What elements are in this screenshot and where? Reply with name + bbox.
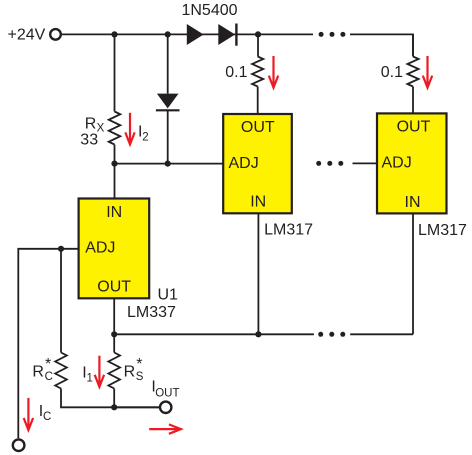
label RC* [32, 356, 53, 383]
svg-text:ADJ: ADJ [382, 155, 412, 172]
svg-text:ADJ: ADJ [85, 239, 115, 256]
resistor RC [55, 353, 67, 389]
junction node A (Rx tap) [111, 31, 117, 37]
wire 0.1 top (stage n) [412, 34, 414, 56]
wire mid rail to 2nd ADJ [353, 162, 378, 164]
wire ADJ left (U1) [18, 249, 78, 438]
wire 0.1 top (stage 1) [257, 34, 259, 56]
svg-text:R: R [124, 363, 136, 380]
svg-text:*: * [136, 356, 142, 373]
diode D3 [156, 94, 180, 111]
diode D1 [187, 24, 204, 45]
svg-text:33: 33 [80, 132, 98, 149]
svg-text:IN: IN [250, 193, 266, 210]
label I2 [138, 123, 149, 143]
junction node C (0.1 tap) [255, 31, 261, 37]
wire mid rail (ADJ bus) [115, 163, 224, 165]
terminal IC [13, 439, 25, 451]
junction mid rail at Rx [111, 161, 117, 167]
op-amp U3 regulator LM317 (stage n) [377, 113, 447, 213]
wire to IOUT terminal [114, 406, 160, 408]
current arrow 0.1 (stage n) [423, 56, 432, 88]
resistor 0.1 (stage 1) [252, 57, 263, 87]
op-amp U2 regulator LM317 (stage 1) [223, 114, 292, 213]
current arrow 0.1 (stage 1) [269, 56, 278, 88]
svg-text:C: C [43, 411, 51, 423]
wire RC bottom [61, 389, 161, 408]
svg-text:+24V: +24V [7, 26, 45, 43]
current arrow IOUT [149, 424, 181, 433]
ellipsis top rail [319, 32, 346, 37]
diode D2 [218, 24, 236, 46]
junction ADJ / RC [58, 246, 64, 252]
wire diode D3 top [167, 34, 169, 93]
junction OUT bus [111, 331, 117, 337]
svg-text:OUT: OUT [97, 278, 131, 295]
svg-text:1: 1 [87, 373, 93, 385]
current arrow I1 [95, 356, 104, 387]
resistor RX 33 [109, 112, 121, 145]
label RX [85, 116, 105, 135]
svg-text:R: R [85, 116, 97, 133]
terminal +24V [50, 29, 61, 40]
junction node B (diode tap) [165, 31, 171, 37]
svg-text:*: * [45, 356, 51, 373]
wire top rail right to 2nd stage [350, 34, 413, 56]
wire top rail [62, 33, 313, 35]
svg-text:0.1: 0.1 [225, 64, 247, 81]
wire OUT bus right [350, 333, 413, 335]
label I1 [82, 365, 93, 385]
svg-text:OUT: OUT [241, 119, 275, 136]
svg-text:C: C [45, 371, 53, 383]
wire Rx bottom [114, 145, 116, 199]
wire diode D3 bottom [167, 110, 169, 163]
junction output node [111, 404, 117, 410]
wire IN down (stage 1) [257, 213, 259, 334]
svg-text:IN: IN [405, 194, 421, 211]
op-amp U1 regulator LM337 [79, 199, 150, 299]
svg-text:IN: IN [106, 204, 122, 221]
wire U1 OUT down [113, 298, 115, 352]
label IOUT [151, 379, 179, 400]
label IC [39, 403, 52, 423]
svg-text:2: 2 [142, 132, 148, 144]
svg-text:S: S [136, 371, 144, 383]
wire IN down (stage n) [412, 213, 414, 334]
terminal IOUT [160, 402, 171, 413]
current arrow I2 [125, 113, 134, 145]
svg-text:1N5400: 1N5400 [181, 2, 237, 19]
junction IN (stage 1) on bus [255, 331, 261, 337]
svg-text:OUT: OUT [397, 119, 431, 136]
svg-text:LM337: LM337 [127, 304, 176, 321]
wire RS bottom [113, 389, 115, 408]
current arrow IC [24, 398, 33, 430]
junction mid rail at diode [165, 161, 171, 167]
resistor 0.1 (stage n) [407, 57, 418, 87]
svg-text:LM317: LM317 [418, 222, 467, 239]
wire OUT bus [114, 333, 314, 335]
wire 0.1 bottom (stage 1) [257, 87, 259, 115]
svg-text:0.1: 0.1 [381, 64, 403, 81]
svg-text:LM317: LM317 [264, 222, 313, 239]
svg-text:OUT: OUT [155, 387, 179, 399]
svg-text:R: R [32, 363, 44, 380]
wire RC top [60, 249, 62, 353]
svg-text:U1: U1 [158, 286, 179, 303]
resistor RS [108, 353, 120, 389]
wire Rx top [114, 34, 116, 111]
ellipsis OUT bus [318, 332, 345, 337]
wire 0.1 bottom (stage n) [412, 87, 414, 114]
svg-text:ADJ: ADJ [229, 155, 259, 172]
ellipsis mid rail [316, 161, 343, 166]
label RS* [124, 356, 144, 383]
